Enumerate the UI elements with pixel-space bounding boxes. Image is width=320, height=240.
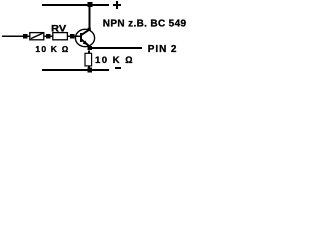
svg-text:10 K Ω: 10 K Ω xyxy=(35,44,69,54)
wire emitter to PIN 2 xyxy=(91,47,142,49)
wire top supply rail xyxy=(42,4,109,6)
svg-text:RV: RV xyxy=(51,23,66,33)
+ supply label xyxy=(113,1,121,9)
svg-text:10 K Ω: 10 K Ω xyxy=(95,55,134,66)
resistor RV 10 kOhm xyxy=(53,33,68,40)
wire R1 to middle node xyxy=(45,35,47,37)
svg-text:NPN z.B. BC 549: NPN z.B. BC 549 xyxy=(103,19,187,30)
wire RV to base node xyxy=(68,35,71,37)
node input junction xyxy=(23,34,28,39)
node base junction xyxy=(70,34,74,38)
resistor R1 (box with diagonal) xyxy=(30,33,44,40)
wire emitter node down to R2 xyxy=(88,51,90,54)
svg-text:PIN 2: PIN 2 xyxy=(148,44,178,55)
wire middle node to RV xyxy=(51,35,53,37)
node emitter resistor junction on bottom rail xyxy=(87,68,92,73)
node emitter junction xyxy=(87,46,91,50)
node collector junction on top rail xyxy=(88,2,93,7)
resistor R2 10 kOhm (emitter, vertical) xyxy=(85,53,92,66)
wire base node to base xyxy=(74,35,81,37)
transistor Q1 NPN xyxy=(75,28,94,47)
wire R2 down to bottom rail xyxy=(88,66,90,70)
wire input node to R1 xyxy=(27,35,30,37)
- supply label xyxy=(115,67,121,69)
wire bottom supply rail xyxy=(42,69,109,71)
wire input (left) xyxy=(2,35,24,37)
node between R1 and RV xyxy=(46,34,51,39)
wire collector (vertical) xyxy=(89,6,91,30)
